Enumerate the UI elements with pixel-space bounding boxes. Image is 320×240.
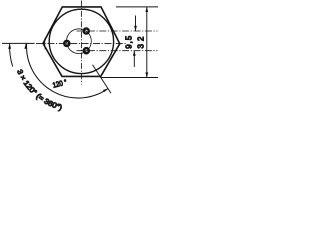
hole B [84, 28, 89, 33]
arrowhead inner arc end [103, 89, 108, 93]
pitch circle [67, 29, 92, 54]
arrowhead outer arc [8, 44, 11, 49]
arrowhead 32 bottom [145, 72, 148, 77]
svg-text:9,5: 9,5 [124, 35, 133, 49]
hole B centerline [77, 30, 158, 32]
hexagon outline [43, 7, 120, 77]
dimension line 5,5 lower [133, 51, 135, 67]
arrowhead 5,5 upper [134, 26, 137, 31]
inner dimension arc 120deg [27, 43, 108, 98]
hole A [64, 41, 69, 46]
bottom extension line for 32 [101, 77, 158, 79]
hole C centerline [77, 50, 158, 52]
top extension line for 32 [116, 6, 158, 8]
hole C [84, 48, 89, 53]
left vertex chamfer arc [44, 38, 47, 49]
arrowhead 32 top [145, 7, 148, 12]
arrowhead inner arc [24, 44, 27, 49]
horizontal centerline (node A axis) [2, 42, 35, 44]
chamfer circle [49, 9, 113, 73]
outer arc stub [10, 44, 13, 67]
dimension line 5,5 upper [135, 16, 137, 32]
dimension line 32 [146, 7, 148, 78]
arrowhead 5,5 lower [133, 51, 136, 56]
vertical centerline [80, 1, 82, 85]
radial extension line (hole C axis) [93, 65, 112, 93]
